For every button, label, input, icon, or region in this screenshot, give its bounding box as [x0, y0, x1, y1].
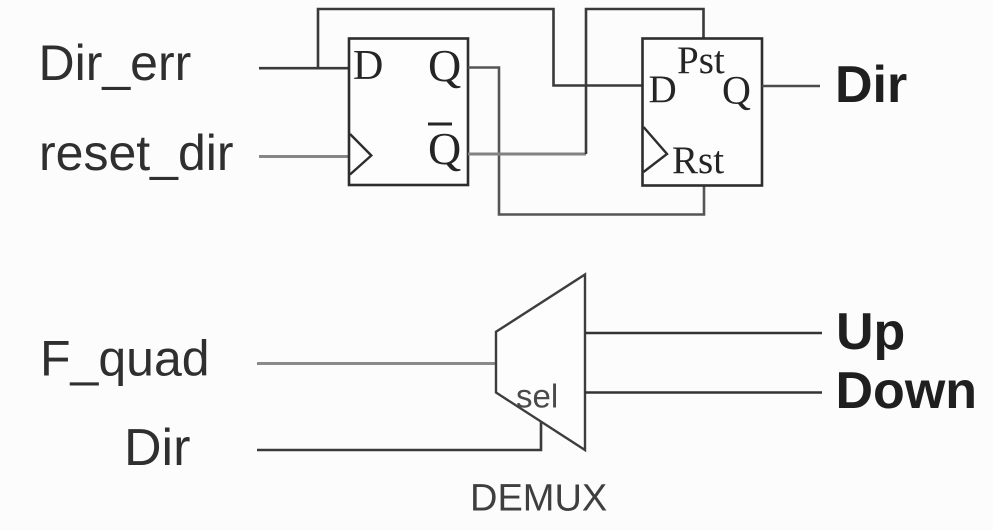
svg-text:reset_dir: reset_dir [39, 125, 234, 181]
wire Down output [585, 391, 822, 393]
wire U1 Q to U2 Rst via bottom [468, 68, 704, 215]
flip-flop U1 [349, 39, 468, 186]
wire Dir_err feedback to U2 D (riser, top run, drop, into D) [318, 9, 643, 86]
svg-text:Up: Up [836, 303, 905, 361]
svg-text:Q: Q [428, 40, 461, 91]
wire Up output [585, 332, 822, 334]
svg-text:D: D [649, 68, 677, 111]
wire F_quad input [257, 362, 496, 365]
svg-text:D: D [353, 43, 383, 89]
wire reset_dir input [259, 155, 349, 158]
wire U2 Q output to Dir [762, 85, 820, 88]
wire Qbar riser to U2 Pst [586, 9, 704, 154]
demux U3 [496, 275, 585, 451]
svg-text:Q: Q [428, 123, 461, 174]
svg-text:Dir: Dir [124, 419, 190, 477]
svg-text:Dir: Dir [835, 56, 907, 114]
svg-text:F_quad: F_quad [40, 331, 210, 387]
svg-text:sel: sel [516, 378, 558, 415]
svg-text:DEMUX: DEMUX [470, 478, 607, 520]
svg-text:Dir_err: Dir_err [39, 35, 192, 91]
wire Dir_err input [259, 67, 349, 70]
svg-text:Q: Q [722, 68, 751, 113]
svg-text:Down: Down [836, 362, 978, 420]
wire Dir select into demux [257, 421, 541, 450]
svg-text:Rst: Rst [672, 139, 724, 182]
svg-text:Pst: Pst [677, 39, 725, 82]
flip-flop U2 [643, 39, 763, 186]
wire U1 Qbar output [468, 153, 586, 156]
